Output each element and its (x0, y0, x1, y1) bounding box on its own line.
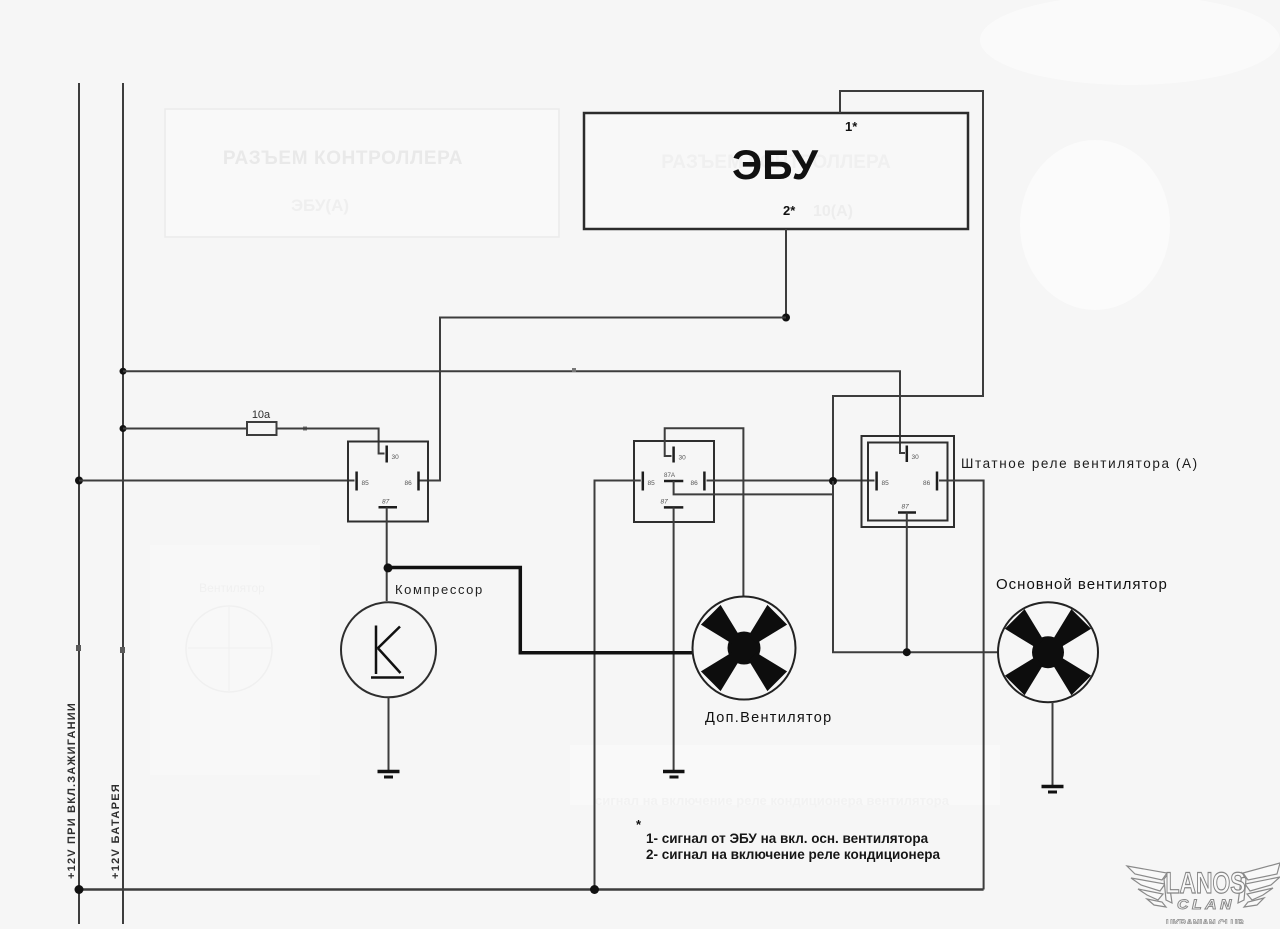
node: coil feed junction at relay3 pin85 (829, 477, 837, 485)
svg-text:30: 30 (392, 454, 400, 461)
svg-text:ЭБУ(А): ЭБУ(А) (291, 196, 349, 215)
relay K1 pin 85 (355, 472, 358, 491)
wire: ECU pin2 down (785, 229, 787, 318)
speck on fuse wire (303, 427, 307, 431)
wire: fuse to relay1 pin30 (277, 429, 385, 454)
wire: relay2 pin87 down to ground (673, 507, 675, 770)
fuse F1 10a (247, 422, 277, 435)
svg-text:сигнал на включение реле конди: сигнал на включение реле кондиционера ве… (595, 793, 950, 808)
svg-text:85: 85 (882, 480, 890, 487)
relay K2 pin 86 (703, 472, 706, 491)
ground for relay2 pin87 (663, 772, 685, 778)
svg-text:Основной вентилятор: Основной вентилятор (996, 576, 1168, 593)
ghost fan symbol (erased) (186, 581, 272, 692)
node: relay2-85 bottom junction (590, 885, 599, 894)
svg-text:+12V ПРИ ВКЛ.ЗАЖИГАНИИ: +12V ПРИ ВКЛ.ЗАЖИГАНИИ (66, 702, 78, 879)
compressor M1 (circle with K) (341, 602, 436, 697)
relay K3 (stock fan relay A, double outline) (862, 436, 955, 527)
svg-text:Штатное реле вентилятора (А): Штатное реле вентилятора (А) (961, 456, 1199, 471)
wire: ignition rail to relay1 pin85 (79, 480, 355, 482)
svg-text:1*: 1* (845, 119, 858, 134)
svg-text:2*: 2* (783, 203, 796, 218)
ECU box U1 (ЭБУ) (584, 113, 968, 229)
ground for main fan (1042, 787, 1064, 793)
node: pin87 to fan feed junction (903, 648, 911, 656)
wire: compressor to ground (388, 697, 390, 770)
node: battery rail to fuse junction (120, 425, 127, 432)
wire: relay2 pin87A down-right to main fan feed line (674, 481, 833, 494)
speck on fan feed wire (572, 368, 576, 372)
erased-wire tick on battery rail (120, 647, 125, 653)
ground rail wire at bottom (79, 888, 984, 891)
wire: relay2 pin30 internal hook (665, 441, 672, 456)
relay K3 pin 30 (906, 446, 909, 463)
relay K1 pin 30 (385, 446, 388, 463)
svg-text:1- сигнал от ЭБУ на вкл. осн.: 1- сигнал от ЭБУ на вкл. осн. вентилятор… (646, 831, 929, 846)
main fan M3 (998, 602, 1098, 702)
wire: relay1 pin87 down to compressor (386, 507, 388, 601)
wire: pin2 left and down to relay1 pin86 (420, 318, 787, 481)
svg-text:87: 87 (382, 499, 390, 506)
node: ignition rail junction (75, 477, 83, 485)
erased-wire tick on ignition rail (76, 645, 81, 651)
thick wire: compressor junction to additional fan (390, 568, 692, 653)
svg-text:UKRANIAN CLUB: UKRANIAN CLUB (1166, 918, 1244, 924)
node: battery rail to fan-relay feed junction (120, 368, 127, 375)
svg-text:Компрессор: Компрессор (395, 582, 484, 597)
svg-text:10а: 10а (252, 409, 271, 421)
wire: battery rail to stock fan relay pin30 (123, 371, 905, 453)
svg-text:+12V БАТАРЕЯ: +12V БАТАРЕЯ (110, 783, 122, 879)
svg-text:CLAN: CLAN (1177, 897, 1235, 912)
additional fan M2 (693, 597, 796, 700)
ground for compressor (378, 772, 400, 778)
svg-text:30: 30 (912, 454, 920, 461)
relay K2 (additional fan relay, 5-pin) (634, 441, 714, 522)
+12V battery rail (second vertical wire) (122, 83, 124, 924)
svg-text:85: 85 (648, 480, 656, 487)
svg-text:30: 30 (679, 455, 687, 462)
svg-text:85: 85 (362, 480, 370, 487)
svg-text:ЭБУ: ЭБУ (732, 141, 819, 188)
relay K3 pin 85 (875, 472, 878, 491)
relay K2 pin 30 (672, 447, 675, 463)
svg-text:86: 86 (405, 480, 413, 487)
watermark logo LANOS CLAN (1127, 863, 1280, 929)
wire: ECU pin1 up over top and right down to relay A coil (833, 91, 983, 480)
svg-text:Вентилятор: Вентилятор (199, 581, 265, 595)
wire: relay3 pin86 right and down to ground rail (939, 481, 984, 890)
svg-text:86: 86 (923, 480, 931, 487)
node: ignition rail bottom junction (75, 885, 84, 894)
svg-text:Доп.Вентилятор: Доп.Вентилятор (705, 710, 833, 726)
wire: junction down to main fan (833, 481, 997, 652)
relay K3 pin 87 (898, 511, 916, 514)
svg-text:87A: 87A (664, 472, 676, 479)
+12V ignition rail (left vertical wire) (78, 83, 80, 924)
wire: relay2 pin85 to ground rail bottom (595, 481, 641, 890)
wire: battery rail to fuse (123, 428, 247, 430)
svg-text:86: 86 (691, 480, 699, 487)
node: compressor feed junction (384, 563, 393, 572)
relay K3 pin 86 (936, 472, 939, 491)
ghost erased patches (150, 0, 1280, 805)
svg-text:87: 87 (661, 499, 669, 506)
ghost connector box (erased) (165, 109, 559, 237)
relay K1 (compressor relay) (348, 442, 428, 522)
wire: relay2 pin30 loop up and down to additional fan (665, 428, 744, 597)
svg-text:РАЗЪЕМ КОНТРОЛЛЕРА: РАЗЪЕМ КОНТРОЛЛЕРА (223, 148, 463, 169)
wire: relay3 pin87 down to main fan feed (906, 513, 908, 653)
svg-text:10(А): 10(А) (813, 203, 853, 220)
relay K2 pin 85 (642, 472, 645, 491)
wire: main fan to ground (1052, 702, 1054, 785)
svg-text:LANOS: LANOS (1166, 867, 1246, 900)
node: ECU pin2 junction (782, 314, 790, 322)
relay K1 pin 86 (417, 472, 420, 491)
relay K2 pin 87 (664, 506, 683, 509)
svg-text:2- сигнал на включение реле ко: 2- сигнал на включение реле кондиционера (646, 847, 940, 862)
relay K1 pin 87 (379, 506, 398, 509)
wire: relay2 pin86 to relay3 pin85 (707, 480, 875, 482)
svg-text:87: 87 (902, 504, 910, 511)
